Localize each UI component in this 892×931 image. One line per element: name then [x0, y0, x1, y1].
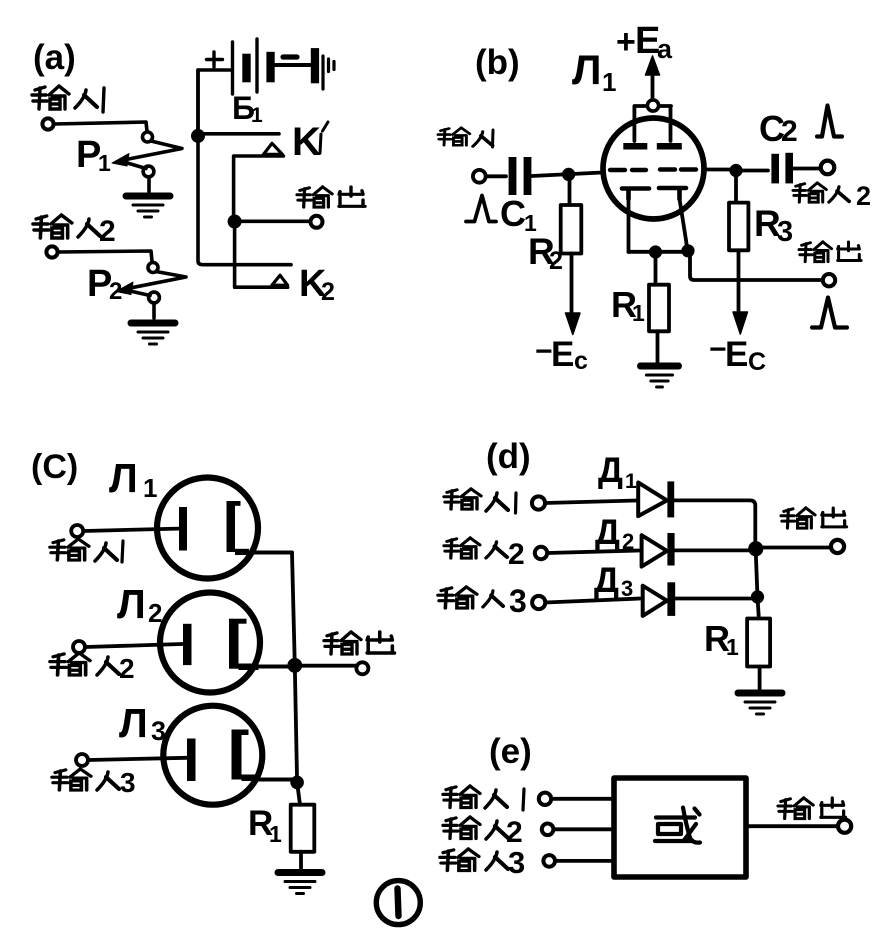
svg-text:3: 3 [508, 845, 525, 880]
svg-text:1: 1 [98, 150, 111, 176]
svg-text:3: 3 [120, 767, 136, 798]
svg-text:3: 3 [777, 216, 793, 248]
svg-text:2: 2 [109, 278, 122, 305]
svg-text:a: a [657, 34, 673, 64]
svg-text:2: 2 [622, 529, 634, 554]
svg-text:2: 2 [148, 598, 162, 628]
svg-text:E: E [551, 335, 574, 374]
svg-text:(e): (e) [489, 732, 532, 771]
svg-text:1: 1 [143, 473, 157, 503]
svg-text:Д: Д [594, 561, 619, 600]
svg-text:2: 2 [856, 181, 871, 211]
svg-text:C: C [748, 348, 766, 376]
svg-text:+: + [616, 23, 636, 61]
svg-text:1: 1 [625, 470, 637, 493]
svg-text:−: − [535, 335, 553, 368]
svg-text:2: 2 [781, 115, 798, 148]
svg-text:Л: Л [572, 46, 601, 93]
svg-text:c: c [574, 347, 588, 375]
svg-text:3: 3 [621, 576, 633, 601]
svg-text:1: 1 [269, 821, 282, 847]
svg-text:Л: Л [119, 700, 148, 746]
svg-text:Д: Д [598, 451, 623, 490]
svg-text:E: E [725, 335, 748, 374]
svg-text:2: 2 [99, 215, 116, 248]
svg-text:1: 1 [602, 67, 616, 97]
svg-text:C: C [500, 193, 526, 234]
svg-text:Д: Д [595, 513, 620, 552]
svg-text:−: − [709, 333, 727, 366]
svg-text:2: 2 [549, 247, 563, 275]
svg-text:2: 2 [119, 653, 135, 684]
svg-text:(a): (a) [33, 38, 76, 77]
svg-text:1: 1 [726, 634, 739, 660]
svg-text:1: 1 [632, 300, 645, 326]
svg-text:Л: Л [109, 455, 138, 501]
svg-text:(b): (b) [475, 43, 520, 82]
svg-text:(C): (C) [31, 448, 78, 486]
svg-text:3: 3 [509, 583, 527, 619]
svg-text:2: 2 [321, 278, 335, 306]
svg-text:K: K [292, 120, 321, 164]
svg-text:2: 2 [508, 538, 525, 571]
svg-text:1: 1 [251, 104, 263, 127]
svg-text:(d): (d) [486, 437, 531, 476]
svg-text:Л: Л [117, 581, 146, 627]
svg-text:3: 3 [151, 716, 166, 746]
